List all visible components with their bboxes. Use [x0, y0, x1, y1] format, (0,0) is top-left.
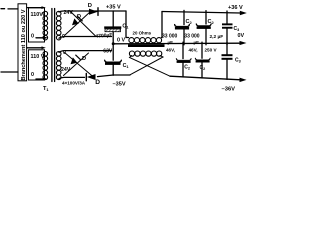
svg-text:T1: T1	[43, 86, 49, 92]
tap arrow 220V top	[27, 7, 42, 9]
capacitor C3 bottom lead	[226, 42, 228, 54]
diode D diagonal bottom rectifier	[64, 53, 89, 76]
capacitor C3 top plates (film)	[222, 23, 233, 25]
svg-text:2,2 µF: 2,2 µF	[210, 34, 224, 40]
capacitor C3 bottom plates (film)	[222, 54, 233, 56]
svg-text:C1: C1	[123, 63, 130, 69]
svg-text:D: D	[95, 79, 100, 86]
wire 0V rail to right with arrow	[113, 42, 240, 45]
capacitor C2 bottom-1 lead	[182, 42, 184, 58]
wire diagonal bottom rectifier second	[65, 53, 94, 78]
transformer T1 secondary winding top	[56, 11, 61, 40]
capacitor C1 top plate	[104, 26, 121, 28]
capacitor C2 top-1 lead	[183, 10, 185, 24]
tap arrow 0 top-box bottom	[36, 37, 44, 39]
arrow -34V output	[240, 78, 247, 83]
svg-text:C3: C3	[235, 58, 241, 64]
wire mains bottom lead	[1, 71, 18, 73]
capacitor C1 middle lead	[112, 32, 114, 60]
capacitor C2 top-1 lower lead	[183, 29, 185, 45]
capacitor C2 bottom-2 lower lead	[201, 63, 203, 79]
svg-text:250 V: 250 V	[205, 47, 218, 52]
capacitor C3 top lower lead	[226, 29, 228, 45]
svg-text:C3: C3	[234, 26, 240, 32]
capacitor C2 bottom-2 lead	[201, 42, 203, 58]
capacitor C1 bottom plate	[105, 60, 122, 62]
wire 0V from secondary top	[59, 37, 112, 39]
arrow +34V output	[240, 11, 247, 15]
svg-text:46V,: 46V,	[189, 48, 198, 53]
wire bottom rail left (-35V section)	[59, 75, 130, 79]
wire top rail left (+35V section)	[59, 11, 126, 12]
node 0V junction dot	[112, 42, 115, 45]
transformer T1 secondary winding bottom	[56, 52, 61, 80]
svg-text:0: 0	[31, 34, 34, 40]
svg-text:–36V: –36V	[222, 87, 236, 93]
transformer T1 primary winding bottom	[43, 52, 48, 80]
wire X crossing up (from -35V to choke L2 right)	[130, 56, 163, 75]
label box Branchement 110 ou 220 V	[18, 4, 27, 81]
capacitor C3 top lead	[226, 11, 228, 23]
wire 0V from secondary bottom	[59, 51, 112, 53]
capacitor C1 bottom lead	[112, 65, 114, 75]
transformer T1 primary box top	[29, 8, 45, 42]
svg-text:+36 V: +36 V	[228, 5, 243, 11]
wire mains top lead	[1, 8, 18, 10]
transformer T1 core	[52, 9, 55, 82]
capacitor C3 bottom lower lead	[226, 60, 228, 80]
transformer T1 primary box bottom	[29, 50, 45, 80]
svg-text:C2: C2	[208, 19, 215, 25]
capacitor C2 bottom-1 lower lead	[182, 63, 184, 77]
choke L1 rise wire	[161, 12, 164, 38]
svg-text:+35 V: +35 V	[106, 5, 121, 11]
svg-text:C2: C2	[184, 65, 190, 71]
choke core bar	[128, 44, 165, 47]
capacitor C2 bottom-2 plate	[195, 58, 210, 60]
svg-text:C2: C2	[186, 19, 193, 25]
capacitor C2 top-2 lead	[205, 11, 207, 24]
arrow 0V output	[240, 41, 247, 45]
svg-text:0 V: 0 V	[117, 38, 125, 44]
wire X crossing down (choke L2 left to -rail right)	[130, 56, 171, 77]
capacitor C1 top hatched body	[105, 29, 121, 32]
diode D horizontal top rail	[89, 8, 98, 16]
svg-text:4×100V/3A: 4×100V/3A	[62, 81, 86, 86]
svg-text:63V: 63V	[103, 49, 113, 55]
svg-text:D: D	[82, 56, 86, 62]
svg-text:µF: µF	[194, 40, 200, 45]
capacitor C2 bottom-1 plate	[176, 59, 191, 61]
capacitor C2 top-2 plate	[196, 24, 211, 26]
svg-text:20 Ohms: 20 Ohms	[133, 31, 152, 36]
diode D diagonal top rectifier	[65, 12, 91, 36]
wire top rail right (+34V section)	[162, 12, 241, 14]
svg-text:Branchement 110 ou 220 V: Branchement 110 ou 220 V	[21, 9, 27, 81]
diode D horizontal bottom rail	[86, 73, 95, 80]
svg-text:110V: 110V	[31, 12, 44, 18]
svg-text:0: 0	[31, 72, 34, 78]
capacitor C2 top-2 lower lead	[205, 29, 207, 45]
svg-text:C2: C2	[200, 65, 206, 71]
wire bottom rail right	[170, 76, 241, 80]
transformer T1 primary winding top	[43, 11, 48, 40]
svg-text:0V: 0V	[238, 33, 245, 39]
svg-text:33 000: 33 000	[184, 33, 200, 39]
wire diagonal top rectifier second	[71, 12, 96, 37]
tap arrow bottom-box top	[27, 47, 42, 49]
svg-text:–35V: –35V	[113, 82, 126, 88]
choke L1 winding	[129, 38, 162, 43]
choke L1 drop wire	[126, 11, 129, 38]
capacitor C1 top lead	[112, 11, 114, 27]
svg-text:46V,: 46V,	[166, 48, 175, 53]
svg-text:D: D	[88, 3, 92, 9]
capacitor C2 top-1 plate	[175, 25, 190, 27]
tap arrow bottom-box bottom	[36, 78, 44, 80]
svg-text:µF: µF	[168, 40, 174, 45]
svg-text:33 000: 33 000	[162, 33, 178, 39]
svg-text:4700µF: 4700µF	[95, 32, 113, 39]
choke L2 winding	[129, 51, 161, 56]
